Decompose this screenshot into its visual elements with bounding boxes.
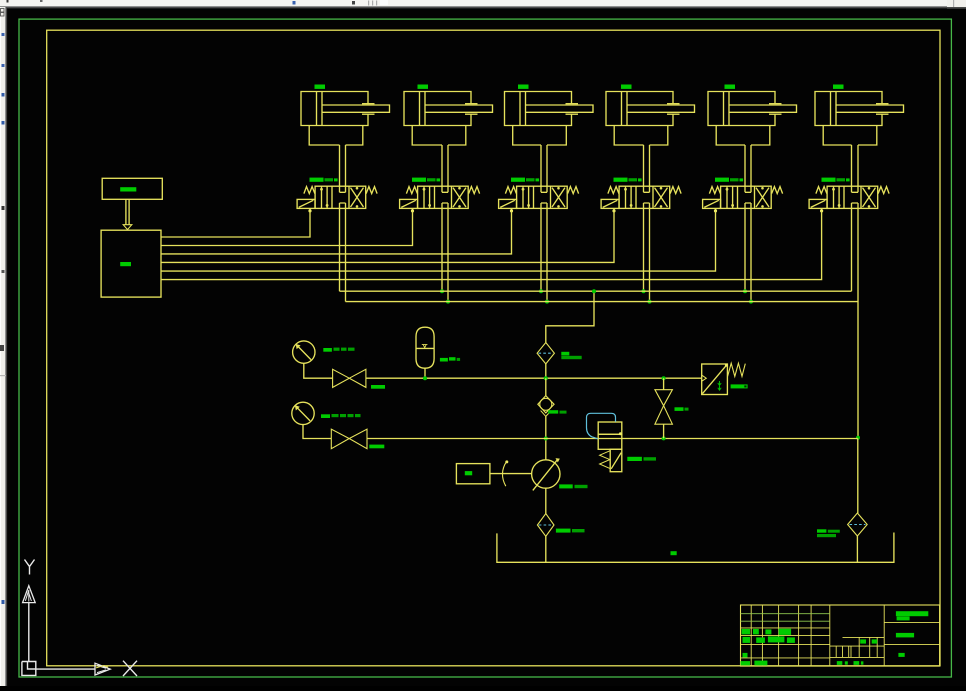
hydraulic cylinder C5 [708,85,797,146]
junction relief bottom [662,436,666,440]
spring BV1 [728,363,746,376]
controller box lower [101,230,161,297]
pipe pair cylinder C6 to valve [852,145,859,186]
pipe valve V1 P to bus [339,208,341,291]
top toolbar strip [0,0,966,9]
label F2 [817,529,840,537]
shutoff valve SV1 [333,369,366,387]
return line [367,438,858,440]
pipe pair cylinder C2 to valve [442,145,448,186]
label PG2 [321,414,361,418]
junction T bus valve 5 [749,300,753,304]
pump line upper [545,378,547,396]
UCS icon [22,560,137,677]
junction P bus valve 2 [440,289,444,293]
pipe valve V6 T down to return [857,208,859,437]
solenoid directional valve V4 [601,178,681,213]
hydraulic cylinder C2 [404,85,493,146]
return filter F2 [848,513,868,536]
gauge PG2 drop [303,425,331,439]
label P1 [559,484,587,488]
tank level mark [671,551,677,555]
relief valve RV1 [655,390,673,425]
pump suction [545,488,547,513]
pipe valve V6 P to bus [851,208,853,291]
hydraulic cylinder C1 [301,85,390,146]
control wire S3 [161,211,512,254]
junction P bus valve 5 [743,289,747,293]
solenoid directional valve V2 [400,178,480,213]
pipe pair cylinder C1 to valve [340,145,346,186]
riser pump to P bus [546,291,594,342]
pipe valve V5 P to bus [744,208,746,291]
control wire S5 [161,211,716,271]
hydraulic cylinder C3 [505,85,594,146]
tank bus T [346,301,859,303]
shutoff valve SV2 [331,429,367,449]
junction T bus valve 4 [648,300,652,304]
suction filter F0 [537,514,554,537]
junction T bus valve 2 [446,300,450,304]
solenoid directional valve V1 [297,178,377,213]
label F1 [561,352,581,359]
pipe valve V2 T to bus [447,208,449,301]
unloader valve UV1 [598,422,622,472]
label UV1 [627,457,656,461]
label RV1 [675,407,689,411]
solenoid directional valve V3 [499,178,579,213]
label F0 [556,529,585,533]
pipe valve V3 P to bus [540,208,542,291]
accumulator stem [424,368,426,378]
control signal arrow [123,199,132,229]
return drop [857,439,859,514]
junction accumulator [423,376,427,380]
junction pump return [544,437,548,441]
title block grid [741,605,940,666]
pipe valve V3 T to bus [546,208,548,301]
label CV1 [548,410,566,413]
pressure gauge PG1 [293,341,315,363]
label BV1 [731,384,748,388]
pipe valve V4 P to bus [643,208,645,291]
pressure gauge PG2 [292,402,314,424]
junction riser P bus [592,289,596,293]
pipe pair cylinder C3 to valve [541,145,547,186]
pipe pair cylinder C4 to valve [644,145,650,186]
junction F1 line [544,376,548,380]
junction T bus valve 3 [545,300,549,304]
pipe valve V1 T to bus [345,208,347,301]
junction T return valve 6 [856,436,860,440]
control wire S1 [161,211,310,237]
pump line lower [545,416,547,459]
junction P bus valve 4 [642,289,646,293]
accumulator AC1 [416,327,434,368]
solenoid directional valve V6 [809,178,889,213]
suction drop [545,536,547,562]
label AC1 [440,357,460,361]
label SV2 [369,445,384,449]
relief valve stems [663,378,665,438]
filter F1 to line [545,364,547,378]
hydraulic cylinder C6 [815,85,904,146]
main pressure line [366,377,702,379]
hydraulic pump P1 [532,459,560,491]
pipe valve V4 T to bus [649,208,651,301]
label PG1 [323,348,354,352]
control wire S2 [161,211,413,246]
gauge PG1 drop [304,363,333,378]
pilot line UV1 [587,413,616,439]
junction P bus valve 3 [539,289,543,293]
title block text bars [741,611,929,665]
electric motor M1 [456,464,490,484]
frame tick near X axis [96,666,108,668]
backpressure valve BV1 [702,364,728,395]
filter F2 drop [856,536,858,562]
pressure filter F1 [537,343,554,364]
solenoid directional valve V5 [703,178,783,213]
pipe valve V5 T to bus [750,208,752,301]
pipe valve V2 P to bus [441,208,443,291]
oil tank [497,533,894,563]
rotation arrow [502,460,508,486]
motor shaft [490,473,532,475]
junction relief tee [662,376,666,380]
control wire S4 [161,211,614,262]
check valve CV1 [538,396,554,417]
label SV1 [371,385,385,389]
left toolbar strip [0,7,6,686]
control wire S6 [161,211,822,280]
pipe pair cylinder C5 to valve [745,145,751,186]
hydraulic cylinder C4 [606,85,695,146]
controller box upper [102,178,162,199]
pressure bus P [340,290,852,292]
